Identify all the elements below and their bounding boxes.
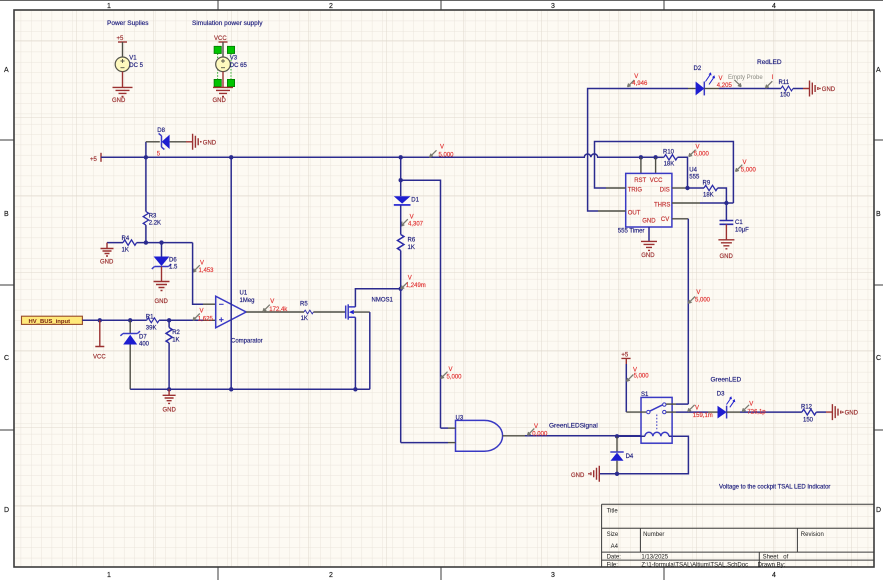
svg-text:1K: 1K — [301, 316, 308, 322]
wire R6 bottom / to U3 input B — [400, 251, 402, 443]
capacitor C1 — [725, 203, 727, 220]
zone ticks left — [0, 140, 14, 430]
wire R10 right / down to DIS — [678, 157, 688, 188]
svg-text:R5: R5 — [300, 302, 308, 308]
svg-text:1K: 1K — [172, 337, 179, 343]
pin CV wire — [672, 218, 688, 220]
svg-text:VCC: VCC — [650, 178, 663, 184]
title block frame — [602, 504, 874, 567]
wire switch NO to CV riser — [666, 403, 676, 405]
node bus-D7 — [128, 318, 132, 322]
svg-text:VCC: VCC — [93, 355, 106, 361]
resistor R3 — [143, 212, 148, 226]
diode D1 — [394, 196, 411, 203]
zone ticks top — [218, 0, 664, 10]
svg-text:D8: D8 — [157, 128, 165, 134]
svg-text:Revision: Revision — [801, 532, 824, 538]
ground (D6) — [154, 282, 170, 291]
wire D1 chain top — [400, 157, 402, 196]
svg-text:GND: GND — [642, 219, 656, 225]
wire HV bus — [82, 319, 203, 321]
svg-text:V: V — [440, 145, 444, 151]
node rail-U1supply — [229, 155, 233, 159]
svg-text:V1: V1 — [129, 56, 137, 62]
pin TRIG wire — [606, 187, 626, 189]
resistor R10 — [656, 156, 664, 158]
wire NMOS bulk down — [369, 312, 371, 389]
wire D6 to gnd — [161, 267, 163, 282]
relay coil — [645, 432, 669, 436]
probe I — [766, 81, 773, 88]
svg-text:5,000: 5,000 — [447, 375, 463, 381]
svg-text:R9: R9 — [703, 181, 711, 187]
node rail-source — [353, 387, 357, 391]
svg-text:DIS: DIS — [660, 187, 670, 193]
node rail-VCC — [653, 155, 657, 159]
svg-text:VCC: VCC — [214, 36, 227, 42]
svg-text:U3: U3 — [456, 416, 464, 422]
node THRS-C1 — [724, 201, 728, 205]
svg-text:D4: D4 — [626, 454, 634, 460]
svg-text:Title: Title — [607, 509, 619, 515]
svg-text:Size: Size — [607, 532, 619, 538]
selection handle squares on V3 — [214, 46, 221, 53]
svg-text:5,000: 5,000 — [634, 373, 650, 379]
svg-text:D: D — [876, 507, 881, 514]
probe V 172,4k — [263, 305, 270, 312]
resistor R5 — [304, 310, 313, 314]
svg-text:HV_BUS_input: HV_BUS_input — [29, 319, 71, 325]
svg-text:V: V — [695, 406, 699, 412]
svg-text:Voltage to the cockpit TSAL LE: Voltage to the cockpit TSAL LED Indicato… — [719, 485, 830, 491]
svg-text:GreenLEDSignal: GreenLEDSignal — [549, 423, 598, 430]
node rail-D1 — [399, 155, 403, 159]
wire NMOS source — [354, 317, 356, 389]
svg-text:+5: +5 — [90, 157, 98, 163]
resistor R4 — [123, 240, 137, 245]
node bus-R2 — [167, 318, 171, 322]
transistor NMOS1 — [345, 306, 347, 319]
svg-text:18K: 18K — [703, 192, 714, 198]
wire V1 bottom — [122, 72, 124, 88]
probe V 726,1p — [742, 405, 749, 412]
svg-text:THRS: THRS — [654, 202, 670, 208]
probe V 1,625 — [193, 314, 200, 321]
node rail-R2 — [167, 387, 171, 391]
svg-text:V: V — [200, 261, 204, 267]
svg-text:V: V — [270, 299, 274, 305]
wire U1 minus input — [193, 243, 203, 305]
svg-text:GND: GND — [720, 254, 734, 260]
probe V 4,946 — [628, 80, 635, 87]
svg-text:GND: GND — [100, 260, 114, 266]
wire V3 top — [222, 42, 224, 57]
resistor R6 — [398, 235, 404, 251]
svg-text:4: 4 — [772, 3, 776, 10]
svg-text:V: V — [200, 309, 204, 315]
wire R3 top — [145, 157, 147, 211]
svg-text:172,4k: 172,4k — [269, 307, 288, 313]
svg-text:0,000: 0,000 — [532, 431, 548, 437]
svg-text:V: V — [743, 160, 747, 166]
svg-text:U4: U4 — [689, 168, 697, 174]
node R3-R4 — [144, 240, 148, 244]
svg-text:D2: D2 — [694, 66, 702, 72]
node D6 top — [159, 240, 163, 244]
svg-text:R10: R10 — [663, 150, 675, 156]
zone ticks right — [874, 140, 883, 430]
svg-text:DC 65: DC 65 — [230, 63, 248, 69]
probe V 5,000 (relay +5) — [627, 375, 634, 382]
svg-text:1K: 1K — [408, 245, 415, 251]
svg-text:Comparator: Comparator — [231, 339, 263, 345]
svg-text:2: 2 — [329, 3, 333, 10]
svg-text:R4: R4 — [122, 236, 130, 242]
port HV_BUS_input — [22, 316, 83, 324]
svg-text:1: 1 — [107, 3, 111, 10]
resistor R11 — [781, 86, 793, 91]
ground below V1 — [113, 87, 133, 96]
svg-text:Number: Number — [643, 532, 664, 538]
svg-text:5,000: 5,000 — [741, 168, 757, 174]
svg-text:159,1m: 159,1m — [693, 413, 713, 419]
svg-text:555: 555 — [689, 175, 700, 181]
svg-text:GND: GND — [571, 473, 585, 479]
wire relay bottom return — [599, 436, 688, 474]
resistor R12 — [802, 409, 816, 415]
svg-text:V: V — [719, 76, 723, 82]
zener D8 — [162, 135, 170, 149]
svg-text:RedLED: RedLED — [757, 59, 782, 66]
svg-text:OUT: OUT — [628, 210, 641, 216]
power port GND (return rail) horizontal-left — [591, 466, 599, 482]
svg-text:GND: GND — [641, 253, 655, 259]
svg-text:C1: C1 — [735, 220, 743, 226]
svg-text:Simulation power supply: Simulation power supply — [192, 20, 263, 27]
svg-text:TRIG: TRIG — [628, 187, 643, 193]
svg-text:C: C — [876, 355, 881, 362]
ground (C1) — [718, 240, 734, 249]
svg-text:R3: R3 — [149, 214, 157, 220]
svg-text:Date:: Date: — [607, 555, 622, 561]
svg-text:V: V — [634, 74, 638, 80]
svg-text:4,307: 4,307 — [408, 221, 424, 227]
wire V1 top — [122, 42, 124, 57]
svg-text:400: 400 — [139, 342, 150, 348]
power port GND (R12) horizontal — [826, 404, 841, 420]
svg-text:D1: D1 — [411, 198, 419, 204]
svg-text:GND: GND — [845, 411, 859, 417]
555 timer U4 — [626, 173, 672, 227]
svg-text:R1: R1 — [146, 314, 154, 320]
svg-text:3: 3 — [551, 3, 555, 10]
probe V 5,000 (CV riser) — [688, 297, 695, 304]
wire +5 rail with hops — [101, 154, 656, 157]
svg-text:Empty Probe: Empty Probe — [728, 75, 763, 81]
probe V 5,000 (R10 corner) — [689, 150, 696, 157]
svg-text:150: 150 — [780, 92, 791, 98]
svg-text:V: V — [696, 290, 700, 296]
voltage source V3 — [216, 57, 231, 72]
svg-text:R2: R2 — [172, 330, 180, 336]
op-amp U1 — [216, 296, 246, 328]
svg-text:A: A — [4, 67, 9, 74]
wire D3 to R12 — [727, 411, 740, 413]
resistor R1 — [147, 318, 160, 323]
node D1 branch — [399, 178, 403, 182]
svg-text:Z:\1-formula\TSAL\Altium\TSAL.: Z:\1-formula\TSAL\Altium\TSAL.SchDoc — [641, 562, 748, 568]
resistor R9 — [688, 187, 705, 189]
svg-text:Sheet of: Sheet of — [763, 555, 789, 561]
probe V 5,000 (THRS riser) — [736, 165, 743, 172]
ground below V3 — [213, 87, 233, 96]
power port VCC (below bus) — [95, 320, 104, 346]
svg-text:1.5: 1.5 — [169, 264, 178, 270]
wire node to D6 / to U1 — [146, 242, 193, 244]
node rail-U1supply — [229, 387, 233, 391]
ground (R4 left) — [101, 243, 114, 256]
svg-text:V: V — [534, 424, 538, 430]
wire coil left lead — [617, 435, 641, 437]
pin VCC stub — [655, 157, 657, 173]
wire U3 input A stub — [441, 427, 449, 429]
svg-text:GND: GND — [203, 140, 217, 146]
svg-text:5,000: 5,000 — [695, 297, 711, 303]
probe V 5,000 (U3 A wire) — [441, 372, 448, 379]
wire D8 branch — [145, 142, 147, 158]
svg-text:B: B — [4, 211, 9, 218]
svg-text:1,625: 1,625 — [198, 316, 214, 322]
svg-text:B: B — [876, 211, 881, 218]
svg-text:GreenLED: GreenLED — [711, 377, 742, 384]
svg-text:D3: D3 — [717, 391, 725, 397]
svg-text:726,1p: 726,1p — [747, 409, 766, 415]
node rail-R3 — [144, 155, 148, 159]
svg-text:V: V — [410, 215, 414, 221]
probe V 1,453 — [193, 265, 200, 272]
zener D7 — [129, 320, 131, 333]
svg-text:GND: GND — [822, 87, 836, 93]
svg-text:1,249m: 1,249m — [406, 283, 426, 289]
svg-text:1: 1 — [107, 572, 111, 579]
wire V3 bottom — [222, 72, 224, 88]
svg-text:V: V — [408, 276, 412, 282]
ground (555) — [641, 241, 657, 250]
voltage source V1 — [115, 57, 130, 72]
probe V 1,249m — [401, 282, 408, 289]
pin DIS wire — [672, 187, 688, 189]
and-gate U3 — [456, 420, 503, 451]
svg-text:2.2K: 2.2K — [149, 221, 161, 227]
svg-text:V: V — [749, 401, 753, 407]
svg-text:GND: GND — [155, 299, 169, 305]
svg-text:1/13/2025: 1/13/2025 — [641, 555, 668, 561]
svg-text:2: 2 — [329, 572, 333, 579]
svg-text:A: A — [876, 67, 881, 74]
zone ticks bottom — [218, 567, 664, 580]
ground (feedback rail) — [163, 389, 176, 403]
wire branch to U3 input A — [401, 180, 441, 428]
wire switch out to D3 — [666, 411, 676, 413]
power port GND (R11) horizontal — [803, 81, 818, 97]
power port GND (D8) horizontal — [186, 134, 198, 150]
pin GND stub (555) — [648, 227, 650, 241]
wire feedback rail — [130, 388, 370, 390]
svg-text:18K: 18K — [664, 161, 675, 167]
svg-text:5,000: 5,000 — [694, 152, 710, 158]
svg-text:GND: GND — [112, 98, 126, 104]
wire U1 supply vertical — [230, 157, 232, 389]
pin THRS wire — [672, 202, 700, 204]
wire U3 output — [503, 435, 525, 437]
svg-text:150: 150 — [803, 417, 814, 423]
svg-text:NMOS1: NMOS1 — [372, 298, 394, 304]
wire D1 to R6 — [400, 205, 402, 235]
node signal-D4 — [615, 434, 619, 438]
wire D2 to R11 — [704, 88, 719, 90]
wire R3 bottom — [145, 225, 147, 243]
svg-text:R11: R11 — [779, 80, 790, 86]
svg-text:Drawn By:: Drawn By: — [758, 562, 786, 568]
svg-text:R6: R6 — [408, 238, 416, 244]
probe V 0,000 — [528, 429, 535, 436]
svg-text:GND: GND — [213, 98, 227, 104]
node D4-return — [615, 472, 619, 476]
svg-text:3: 3 — [551, 572, 555, 579]
zener D6 — [161, 243, 163, 257]
wire U1 output — [246, 311, 346, 313]
node rail-RST — [639, 155, 643, 159]
wire R4 row — [107, 242, 146, 244]
resistor R2 — [168, 320, 170, 327]
probe V 5,000 on rail — [430, 150, 437, 157]
probe V 4,205 — [734, 80, 741, 87]
svg-text:1K: 1K — [122, 248, 129, 254]
svg-text:D7: D7 — [139, 335, 147, 341]
probe V 159,1m — [688, 405, 695, 412]
svg-text:V: V — [696, 144, 700, 150]
wire NMOS drain — [355, 289, 400, 307]
pin RST stub — [640, 157, 642, 173]
svg-text:39K: 39K — [146, 325, 157, 331]
svg-text:D6: D6 — [169, 257, 177, 263]
node bus-VCC — [98, 318, 102, 322]
svg-text:V3: V3 — [230, 56, 238, 62]
svg-text:4: 4 — [772, 572, 776, 579]
svg-text:File:: File: — [607, 562, 619, 568]
node R6-drain — [399, 287, 403, 291]
svg-text:CV: CV — [661, 217, 669, 223]
svg-text:5,000: 5,000 — [439, 152, 455, 158]
svg-text:555 Timer: 555 Timer — [618, 229, 645, 235]
svg-text:A4: A4 — [611, 544, 619, 550]
wire U3 input B stub — [401, 442, 448, 444]
svg-text:GND: GND — [163, 408, 177, 414]
node DIS-R10 — [685, 186, 689, 190]
svg-text:U1: U1 — [240, 291, 248, 297]
svg-text:DC 5: DC 5 — [129, 63, 143, 69]
svg-text:1,453: 1,453 — [199, 268, 215, 274]
svg-text:Power Suplies: Power Suplies — [107, 20, 149, 27]
probe V 4,307 — [401, 219, 408, 226]
svg-text:+5: +5 — [117, 36, 125, 42]
svg-text:V: V — [449, 367, 453, 373]
svg-text:4,946: 4,946 — [632, 81, 648, 87]
pin OUT wire — [598, 210, 626, 212]
svg-text:RST: RST — [634, 178, 646, 184]
svg-text:4,205: 4,205 — [717, 83, 733, 89]
diode D4 — [616, 436, 618, 452]
svg-text:1Meg: 1Meg — [240, 298, 255, 304]
svg-text:R12: R12 — [801, 405, 813, 411]
svg-text:C: C — [4, 355, 9, 362]
svg-text:10μF: 10μF — [735, 227, 749, 233]
svg-text:D: D — [4, 507, 9, 514]
